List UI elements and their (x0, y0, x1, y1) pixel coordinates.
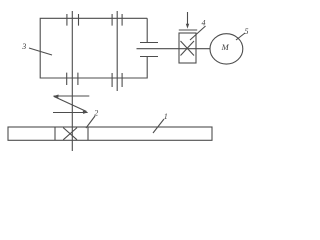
X mark in variator (181, 41, 195, 56)
coupling lower half (140, 56, 158, 58)
svg-text:M: M (221, 42, 230, 52)
shaft II (right vertical shaft) (116, 11, 118, 91)
leader line 2 (86, 116, 95, 128)
svg-text:3: 3 (21, 42, 26, 51)
conveyor divider left (54, 127, 56, 140)
svg-text:4: 4 (202, 19, 206, 28)
svg-text:2: 2 (94, 109, 98, 118)
shaft I (left vertical shaft) (71, 11, 73, 151)
svg-text:1: 1 (164, 112, 168, 121)
drive drum X mark 2 (63, 128, 77, 140)
svg-text:5: 5 (245, 27, 249, 36)
bearing ticks shaft II top (112, 14, 122, 26)
bar above variator (179, 29, 197, 31)
leader line 5 (236, 33, 245, 40)
leader line 4 (190, 26, 206, 40)
bearing ticks shaft I bottom (67, 73, 78, 85)
variator box 4 (179, 33, 196, 63)
horizontal motor shaft (137, 48, 210, 50)
gearbox housing 3 (40, 18, 147, 78)
chain drive arrowhead right (83, 111, 88, 114)
motor circle U5 (210, 34, 243, 64)
chain drive arrowhead left (53, 95, 59, 98)
chain drive top pulley line (54, 95, 90, 97)
coupling upper half (140, 42, 158, 44)
leader line 1 (153, 119, 164, 133)
conveyor divider right (87, 127, 89, 140)
bearing ticks shaft I top (67, 14, 79, 26)
chain drive bottom pulley line (53, 112, 88, 114)
conveyor body 1 (8, 127, 212, 140)
bearing ticks shaft II bottom (112, 73, 122, 87)
leader line 3 (29, 48, 52, 55)
control arrow (187, 12, 189, 25)
chain drive diagonal (54, 97, 87, 112)
